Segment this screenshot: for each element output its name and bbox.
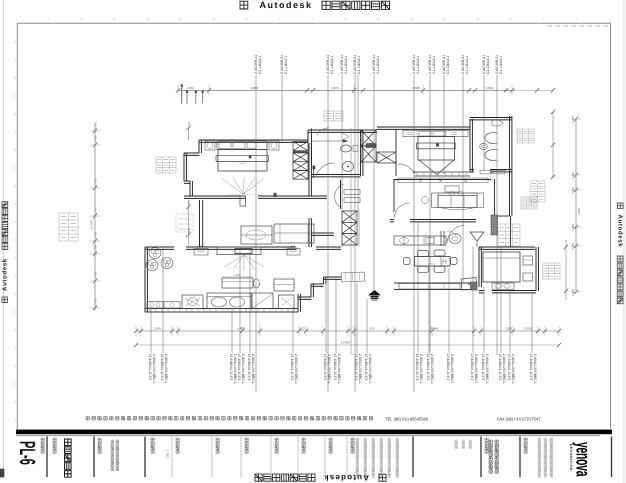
living room south window band: [145, 308, 298, 310]
kitchen wall boxes: [523, 256, 533, 265]
drawing frame border: [17, 23, 610, 430]
bottom leader lines: [150, 307, 152, 353]
wall: shaft bathroom: [361, 130, 363, 176]
title col labels: [41, 438, 44, 441]
svg-text:1.750: 1.750: [94, 207, 98, 214]
svg-text:2.450: 2.450: [571, 116, 575, 123]
svg-text:900: 900: [188, 228, 191, 233]
wall: bedroom1 left lower step: [184, 181, 190, 183]
border underside dashes right: [548, 25, 552, 27]
watermark right edge (vertical): [617, 203, 624, 304]
entry threshold: [341, 272, 365, 282]
svg-text:C1 1.80x2.1: C1 1.80x2.1: [330, 56, 334, 74]
kitchen door poche: [471, 282, 478, 290]
svg-text:14.403: 14.403: [340, 341, 350, 345]
right lower dim line: [565, 240, 567, 300]
svg-text:LT-8 850x1.20 FJ: LT-8 850x1.20 FJ: [333, 354, 337, 380]
watermark left edge (vertical): [2, 202, 9, 303]
corridor leader pair: [350, 128, 352, 355]
hall partition wall: [200, 200, 203, 247]
left tag table: [59, 213, 78, 241]
family room tag: [521, 197, 537, 209]
family console: [445, 186, 459, 192]
svg-text:LT-8 850x1.20 FJ: LT-8 850x1.20 FJ: [237, 354, 241, 380]
svg-text:LT-8 850x1.20 FJ: LT-8 850x1.20 FJ: [498, 354, 502, 380]
svg-text:Autodesk: Autodesk: [323, 473, 369, 482]
left dimension ruler: [94, 124, 96, 310]
svg-text:LT-8 850x1.20 FJ: LT-8 850x1.20 FJ: [415, 354, 419, 380]
svg-text:Autodesk: Autodesk: [259, 0, 312, 10]
corridor door post: [313, 165, 315, 178]
wall: master bath right: [510, 116, 512, 172]
living tv bench row: [147, 302, 163, 309]
living sofa armchair: [182, 295, 203, 309]
svg-text:C1 1.80x2.1: C1 1.80x2.1: [357, 56, 361, 74]
svg-text:6.900: 6.900: [250, 86, 258, 90]
wall: bedroom1 left upper stub: [199, 140, 201, 153]
living chaise: [252, 293, 273, 309]
svg-text:C1 1.80x2.1: C1 1.80x2.1: [376, 56, 380, 74]
title dividers: [46, 437, 48, 478]
wall: family/dining divider: [390, 220, 394, 222]
svg-text:2.450: 2.450: [571, 187, 575, 194]
wall: master bath bottom: [470, 170, 474, 172]
dining sideboard: [399, 284, 460, 290]
svg-text:414: 414: [369, 327, 374, 331]
svg-text:LT-8 850x1.20 FJ: LT-8 850x1.20 FJ: [247, 354, 251, 380]
svg-text:LT-8 850x1.20 FJ: LT-8 850x1.20 FJ: [481, 354, 485, 380]
bedroom1 bedside tables: [205, 141, 215, 150]
shoe cabinet: [461, 278, 477, 291]
svg-text:yenova: yenova: [572, 442, 594, 477]
kitchen walls: [479, 247, 535, 249]
svg-text:2.450: 2.450: [571, 289, 575, 296]
bedroom2 bed: [418, 137, 455, 161]
svg-text:LT-8 850x1.20 FJ: LT-8 850x1.20 FJ: [364, 354, 368, 380]
range wok: [449, 234, 461, 244]
svg-text:LT-8 850x1.20 FJ: LT-8 850x1.20 FJ: [529, 354, 533, 380]
svg-text:LT-8 850x1.20 FJ: LT-8 850x1.20 FJ: [290, 354, 294, 380]
hall legend dashed box: [176, 214, 193, 232]
wall: top-center corridor: [308, 130, 377, 132]
leader arrow to toilet: [312, 140, 348, 142]
svg-text:2.510: 2.510: [524, 327, 532, 331]
living tv cabinet: [217, 247, 261, 255]
wall: bedroom1 bottom: [184, 196, 246, 198]
svg-text:Autodesk: Autodesk: [617, 215, 624, 248]
living room north wall: [145, 247, 174, 249]
svg-text:900: 900: [188, 200, 191, 205]
wall: bedroom2 left: [395, 130, 397, 176]
living sofa 3-seat: [207, 293, 251, 309]
master bath toilet: [480, 143, 488, 149]
svg-text:3.040: 3.040: [430, 327, 438, 331]
spec text columns: [538, 438, 541, 441]
bottom dimension line: [136, 330, 559, 332]
date marks: [455, 440, 457, 442]
svg-text:900: 900: [188, 121, 191, 126]
project name column: [489, 440, 492, 443]
dining table: [415, 257, 451, 267]
svg-text:1.534: 1.534: [153, 327, 161, 331]
svg-text:1.750: 1.750: [94, 245, 98, 252]
kitchen island: [483, 252, 520, 282]
svg-text:Autodesk: Autodesk: [2, 258, 9, 291]
wall poche blocks family/kitchen: [491, 215, 498, 225]
svg-text:C1 1.80x2.1: C1 1.80x2.1: [258, 56, 262, 74]
svg-text:1.750: 1.750: [94, 299, 98, 306]
svg-text:1.750: 1.750: [94, 122, 98, 129]
master bath sink: [485, 150, 497, 161]
window panes: master bath: [480, 170, 491, 174]
family room sofa: [438, 192, 477, 194]
dining counters: [394, 236, 446, 245]
svg-text:4.520: 4.520: [412, 86, 420, 90]
svg-text:1.750: 1.750: [94, 272, 98, 279]
living room west wall: [145, 247, 147, 312]
window pane row: [398, 178, 420, 183]
svg-text:2.06: 2.06: [506, 327, 512, 331]
wall: family room east: [510, 172, 512, 216]
bedroom2 headboard row: [403, 131, 468, 137]
svg-text:C1 1.80x2.1: C1 1.80x2.1: [284, 56, 288, 74]
range hood symbol: [470, 232, 484, 241]
svg-text:C1 1.80x2.1: C1 1.80x2.1: [499, 56, 503, 74]
svg-text:TEL (86) 010 88545566: TEL (86) 010 88545566: [385, 416, 429, 421]
svg-text:2.000: 2.000: [238, 162, 245, 165]
hall chests: [241, 226, 272, 244]
living east step walls: [298, 294, 300, 312]
svg-text:LT-8 850x1.20 FJ: LT-8 850x1.20 FJ: [470, 354, 474, 380]
bedroom1 rug fan: [222, 179, 244, 195]
yenova logo: [572, 442, 594, 477]
wall: master bath left: [470, 119, 472, 172]
frame margin ticks left: [14, 41, 17, 43]
svg-text:LT-8 850x1.20 FJ: LT-8 850x1.20 FJ: [507, 354, 511, 380]
svg-text:2.450: 2.450: [571, 243, 575, 250]
svg-text:PL-6: PL-6: [15, 441, 40, 465]
wall: bedroom1 top: [199, 140, 308, 142]
door arc: corridor bathroom: [316, 163, 335, 176]
bedroom1 window tag: [156, 157, 176, 173]
frame margin ticks top: [47, 18, 50, 20]
wall: bedroom1 left: [184, 153, 186, 181]
svg-text:C1 1.80x2.1: C1 1.80x2.1: [486, 56, 490, 74]
page right edge: [623, 0, 625, 483]
door arc: kitchen entry: [447, 225, 464, 243]
dense notes block: [356, 438, 359, 441]
svg-text:C1 1.80x2.1: C1 1.80x2.1: [344, 56, 348, 74]
svg-text:2.450: 2.450: [571, 224, 575, 231]
bottom total dimension: [136, 344, 559, 346]
kitchen sink: [492, 283, 514, 290]
svg-text:2.450: 2.450: [571, 172, 575, 179]
svg-text:C1 1.80x2.1: C1 1.80x2.1: [432, 56, 436, 74]
svg-text:C1 1.80x2.1: C1 1.80x2.1: [446, 56, 450, 74]
master bath tub: [485, 133, 497, 144]
address line: [86, 417, 90, 421]
north arrow: [368, 290, 381, 295]
svg-text:LT-8 850x1.20 FJ: LT-8 850x1.20 FJ: [323, 354, 327, 380]
living coffee table: [222, 278, 253, 288]
entry double door: [344, 190, 360, 195]
svg-text:LT-8 850x1.20 FJ: LT-8 850x1.20 FJ: [148, 354, 152, 380]
svg-text:LT-8 850x1.20 FJ: LT-8 850x1.20 FJ: [354, 354, 358, 380]
svg-text:1.750: 1.750: [94, 179, 98, 186]
master bath tag: [517, 129, 534, 143]
door arc: family room: [394, 203, 410, 218]
svg-text:C1 1.80x2.1: C1 1.80x2.1: [465, 56, 469, 74]
door jamb: bedroom1: [240, 196, 246, 206]
notes small column: [111, 440, 114, 443]
shaft bath toilet: [341, 145, 352, 152]
svg-text:LT-8 850x1.20 FJ: LT-8 850x1.20 FJ: [160, 354, 164, 380]
wall: master bath top: [470, 118, 512, 120]
wall: entry closet stub: [311, 233, 334, 235]
svg-text:4.274: 4.274: [331, 86, 339, 90]
top dimension line: [178, 89, 515, 91]
corner mark bottom-left: [0, 469, 4, 477]
title bar: [16, 430, 612, 435]
tv fan lines: [224, 255, 244, 267]
svg-text:DECORATION: DECORATION: [569, 444, 573, 471]
kitchen tag: [543, 263, 560, 279]
svg-text:FAX (86) 010 87217547: FAX (86) 010 87217547: [497, 416, 541, 421]
bedroom1 wardrobe x-column: [293, 142, 308, 151]
wall: bedroom2 top: [377, 127, 470, 129]
bedroom1 bed: [217, 141, 267, 150]
svg-text:1.310: 1.310: [485, 86, 493, 90]
svg-text:4.420: 4.420: [237, 327, 245, 331]
door arc: corridor to bedroom2 hall: [317, 128, 330, 136]
watermark bottom (rotated 180): [255, 473, 386, 482]
sheet number PL-6: [15, 441, 40, 465]
top leader lines: [255, 75, 257, 392]
entry door symbol top: [181, 85, 183, 104]
shaft x-boxes: [361, 130, 376, 146]
tag above corridor: [324, 111, 343, 121]
drawing name (fake hanzi column): [65, 439, 72, 446]
svg-text:1.750: 1.750: [94, 136, 98, 143]
window band: bedroom2 bottom: [414, 171, 470, 173]
watermark top: Autodesk education banner: [240, 1, 248, 9]
living side table: [279, 295, 295, 309]
wall console tables with flowers: [194, 249, 208, 256]
dining chairs: [418, 251, 429, 257]
svg-text:LT-8 850x1.20 FJ: LT-8 850x1.20 FJ: [426, 354, 430, 380]
wall: bedroom1 left step: [184, 153, 199, 155]
wall: corridor bottom stub: [311, 196, 327, 198]
inner left dimension ruler: [188, 127, 190, 140]
svg-text:1.750: 1.750: [94, 232, 98, 239]
entry wardrobe x-boxes: [342, 211, 357, 222]
svg-text:7.060: 7.060: [577, 208, 581, 216]
wall: corridor right vertical: [309, 143, 311, 196]
svg-text:753: 753: [299, 327, 304, 331]
svg-text:1.731: 1.731: [186, 86, 194, 90]
living stool: [254, 279, 260, 288]
shaft bath sink: [343, 162, 354, 172]
page left edge: [3, 0, 5, 477]
svg-text:LT-8 850x1.20 FJ: LT-8 850x1.20 FJ: [446, 354, 450, 380]
living ottoman: [274, 279, 294, 291]
living plants: [149, 248, 161, 259]
right dimension ruler: [575, 119, 577, 292]
svg-text:14.150: 14.150: [90, 220, 94, 230]
svg-text:LT-8 850x1.20 FJ: LT-8 850x1.20 FJ: [229, 354, 233, 380]
svg-text:1:50: 1:50: [165, 449, 170, 458]
svg-text:C1 1.80x2.1: C1 1.80x2.1: [416, 56, 420, 74]
right mid tag: [530, 181, 545, 202]
wall: corridor bath left: [311, 129, 313, 166]
door arc: bedroom2: [398, 164, 414, 173]
dining south window band: [394, 282, 477, 284]
